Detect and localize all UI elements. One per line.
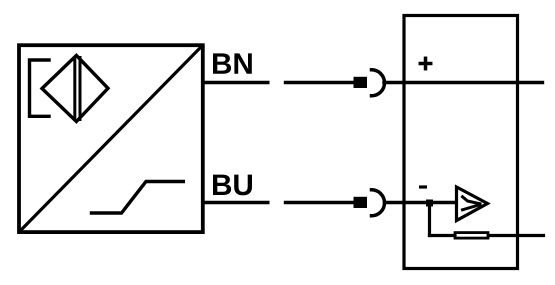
wire BU segment 2 xyxy=(286,201,356,204)
amplifier triangle A1 xyxy=(457,187,488,221)
amplifier inner chevron upper stroke xyxy=(463,197,481,204)
label BU xyxy=(213,175,252,196)
node junction on BU wire xyxy=(426,200,433,207)
analog output ramp symbol xyxy=(92,182,184,214)
wire BN segment 2 xyxy=(286,81,356,84)
sensor box diagonal divider xyxy=(20,47,201,231)
amplifier box outline xyxy=(404,16,518,269)
wire BU segment 1 xyxy=(203,201,268,204)
amplifier inner chevron lower stroke xyxy=(463,205,481,210)
proximity sensor diamond double bar right xyxy=(79,58,82,120)
minus terminal label xyxy=(421,185,426,188)
wire BU segment 3 to amplifier input xyxy=(385,201,457,204)
wire BN segment 1 xyxy=(203,81,268,84)
wire from bend to resistor xyxy=(430,234,456,237)
connector socket arc BN xyxy=(372,70,385,96)
wire from resistor to output xyxy=(490,234,544,237)
proximity sensor symbol diamond xyxy=(42,55,108,121)
connector socket arc BU xyxy=(372,190,385,216)
proximity sensor symbol bracket xyxy=(30,60,50,116)
sensor box U1 outline xyxy=(19,45,203,232)
connector pin plug BN xyxy=(354,77,368,88)
proximity sensor diamond double bar left xyxy=(73,58,76,120)
connector pin plug BU xyxy=(354,197,368,208)
wire from junction down xyxy=(428,203,431,236)
wire BN segment 3 into amplifier box xyxy=(384,81,543,84)
plus terminal label xyxy=(420,62,430,66)
load resistor RL xyxy=(455,233,488,239)
label BN xyxy=(213,53,252,73)
